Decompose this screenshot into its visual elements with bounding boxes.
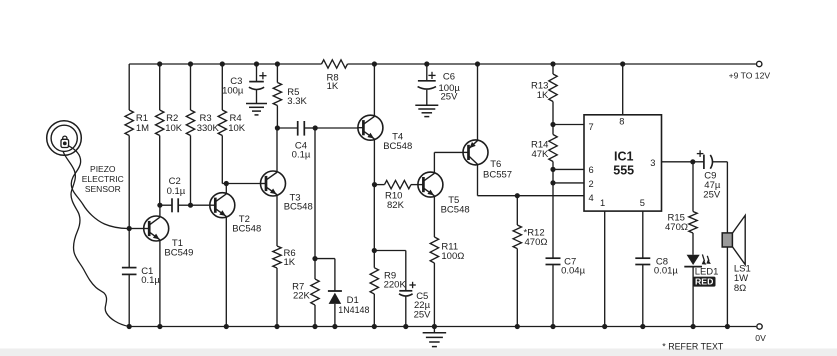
resistor R9 (370, 251, 406, 327)
svg-text:25V: 25V (441, 92, 459, 103)
node R3 on +V rail (188, 61, 193, 66)
wire pin 2 (553, 182, 584, 184)
svg-text:100Ω: 100Ω (441, 251, 464, 262)
wire T3 emitter (276, 195, 278, 246)
wire T5 collector to T6 base (434, 152, 463, 172)
node piezo/C1 on 0V rail (127, 324, 132, 329)
node R12 on reset line (515, 193, 520, 198)
piezo electric sensor disc (47, 121, 82, 156)
wire T2 base (191, 204, 210, 206)
svg-text:3: 3 (650, 158, 655, 168)
svg-text:BC548: BC548 (284, 202, 313, 213)
wire R7 node to D1 (315, 258, 335, 260)
svg-text:82K: 82K (387, 200, 405, 211)
svg-text:25V: 25V (414, 309, 432, 320)
node C6 on +V rail (424, 61, 429, 66)
wire T1 emitter (159, 240, 161, 326)
wire T4 base (315, 127, 358, 129)
svg-text:1N4148: 1N4148 (338, 305, 369, 315)
svg-text:RED: RED (695, 277, 713, 287)
node R12 on 0V rail (515, 324, 520, 329)
capacitor C6 (418, 64, 461, 105)
node T4 emitter / R10 / R9 (372, 182, 377, 187)
svg-text:BC549: BC549 (164, 248, 193, 259)
LED LED1 (684, 254, 718, 326)
transistor T2 (210, 193, 261, 235)
capacitor C2 (160, 176, 191, 212)
node R5 / T3 collector / C4 (275, 125, 280, 130)
svg-text:0.1µ: 0.1µ (167, 186, 186, 197)
svg-text:* REFER TEXT: * REFER TEXT (662, 342, 724, 352)
resistor R8 (322, 60, 348, 92)
node R6 on 0V rail (274, 324, 279, 329)
resistor R6 (273, 246, 296, 327)
node pin 8 on +V rail (620, 61, 625, 66)
node R13 on +V rail (550, 61, 555, 66)
svg-text:1M: 1M (136, 123, 149, 134)
label PIEZO ELECTRIC SENSOR (82, 164, 124, 194)
svg-text:6: 6 (589, 165, 594, 175)
resistor R1 (125, 64, 149, 229)
svg-text:PIEZO: PIEZO (90, 164, 116, 174)
svg-text:10K: 10K (165, 123, 183, 134)
node T6 emitter on +V rail (475, 61, 480, 66)
node C8 on 0V rail (640, 324, 645, 329)
svg-text:10K: 10K (228, 123, 246, 134)
svg-text:100µ: 100µ (222, 85, 244, 96)
svg-text:BC548: BC548 (441, 205, 470, 216)
svg-text:5: 5 (640, 198, 645, 208)
node T1 base / R1 / C1 (127, 226, 132, 231)
wire piezo lead to 0V rail (63, 151, 129, 326)
node C5 on 0V rail (403, 324, 408, 329)
node pin 6 junction (550, 167, 555, 172)
svg-text:8Ω: 8Ω (734, 283, 746, 294)
node R7 / D1 (312, 256, 317, 261)
node T1 emitter on 0V rail (157, 324, 162, 329)
capacitor C3 (222, 64, 266, 104)
wire T2 collector (225, 184, 227, 194)
capacitor C9 (693, 150, 728, 200)
label REFER TEXT footnote (662, 342, 724, 352)
resistor R14 (531, 125, 557, 170)
svg-text:22K: 22K (293, 290, 311, 301)
transistor T4 (358, 115, 412, 152)
svg-text:0.01µ: 0.01µ (654, 266, 678, 277)
svg-text:0.1µ: 0.1µ (292, 150, 311, 161)
wire pin 6 (553, 168, 584, 170)
node R2 / T1 collector / C2 (157, 203, 162, 208)
capacitor C5 (374, 251, 431, 327)
node D1 on 0V rail (332, 324, 337, 329)
svg-text:0V: 0V (755, 333, 766, 343)
wire 0V bottom rail (129, 326, 756, 328)
transistor T5 (418, 172, 470, 215)
wire pin 3 output (662, 161, 693, 163)
svg-text:470Ω: 470Ω (525, 237, 548, 248)
resistor R3 (186, 64, 219, 205)
node R7 on 0V rail (312, 324, 317, 329)
svg-text:470Ω: 470Ω (665, 222, 688, 233)
svg-text:SENSOR: SENSOR (85, 184, 121, 194)
node speaker on 0V rail (725, 324, 730, 329)
wire pin 2-6 node down to C7 (552, 169, 554, 258)
svg-text:8: 8 (619, 117, 624, 127)
wire T2 emitter (225, 217, 227, 327)
svg-text:330K: 330K (197, 123, 220, 134)
node T2 emitter on 0V rail (224, 324, 229, 329)
svg-text:555: 555 (613, 164, 634, 178)
svg-text:+9 TO 12V: +9 TO 12V (729, 70, 771, 80)
resistor R15 (665, 162, 697, 255)
resistor R11 (430, 237, 464, 327)
svg-text:47K: 47K (531, 149, 549, 160)
terminal +9 TO 12V (729, 61, 771, 80)
svg-text:7: 7 (589, 122, 594, 132)
wire C4 node down to R7-D1 node (314, 128, 316, 259)
wire pin 5 to C8 (642, 211, 644, 258)
svg-text:1: 1 (600, 198, 605, 208)
resistor R12 (513, 196, 547, 327)
speaker LS1 (722, 215, 751, 293)
capacitor C7 (546, 256, 586, 326)
resistor R5 (273, 64, 307, 128)
wire T5 emitter (433, 196, 435, 237)
node pin 3 / C9 / R15 (690, 159, 695, 164)
svg-text:4: 4 (589, 193, 594, 203)
svg-text:BC548: BC548 (383, 141, 412, 152)
node R9 / C5 (372, 248, 377, 253)
resistor R10 (375, 180, 418, 211)
wire C9 to speaker (726, 162, 728, 233)
node R5 on +V rail (275, 61, 280, 66)
wire speaker to 0V (726, 247, 728, 327)
svg-text:ELECTRIC: ELECTRIC (82, 174, 124, 184)
resistor R7 (292, 259, 319, 327)
node pin 1 on 0V rail (602, 324, 607, 329)
node R3 / C2 / T2 base (188, 203, 193, 208)
piezo sensor crystal icon (61, 136, 69, 147)
wire T4 collector (373, 64, 375, 116)
resistor R13 (531, 64, 557, 125)
wire R4 to T3 base (222, 183, 260, 185)
wire piezo lead to T1 base node (68, 145, 129, 228)
svg-text:T6: T6 (490, 159, 501, 170)
svg-text:C6: C6 (443, 72, 455, 83)
wire pin 8 to +V (622, 64, 624, 115)
wire pin 1 to 0V (604, 211, 606, 326)
node R13 / R14 / pin 7 (550, 122, 555, 127)
ground (C6) (415, 105, 438, 116)
wire T1 base (129, 228, 144, 230)
svg-text:220K: 220K (384, 280, 407, 291)
svg-text:1K: 1K (284, 257, 296, 268)
node C7 on 0V rail (550, 324, 555, 329)
svg-text:BC557: BC557 (483, 169, 512, 180)
svg-text:25V: 25V (703, 189, 721, 200)
svg-text:IC1: IC1 (614, 150, 634, 164)
node T2 collector / R4 / T3 base (224, 181, 229, 186)
node R2 on +V rail (157, 61, 162, 66)
node R4 on +V rail (220, 61, 225, 66)
svg-text:2: 2 (589, 179, 594, 189)
ground (bottom rail) (423, 327, 447, 347)
wire pin 7 (553, 124, 584, 126)
transistor T3 (261, 171, 313, 213)
bottom scan band (0, 349, 837, 356)
node C4 / T4 base / R7 branch (313, 125, 318, 130)
ground (C3) (246, 104, 267, 115)
resistor R4 (218, 64, 246, 184)
label RED (693, 277, 716, 287)
capacitor C1 (122, 229, 161, 327)
transistor T1 (144, 216, 194, 259)
wire T1 collector (159, 205, 161, 217)
capacitor C8 (635, 256, 678, 326)
wire T6 collector to reset line (478, 165, 585, 196)
svg-text:BC548: BC548 (232, 224, 261, 235)
svg-text:0.04µ: 0.04µ (561, 266, 585, 277)
node T4 collector on +V rail (372, 61, 377, 66)
node R11/ground on 0V rail (432, 324, 437, 329)
wire T4 emitter (373, 140, 375, 185)
resistor R2 (156, 64, 183, 205)
capacitor C4 (277, 121, 315, 161)
wire T6 emitter to +V (477, 64, 479, 140)
wire T3 collector (276, 128, 278, 172)
svg-text:1K: 1K (537, 90, 549, 101)
transistor T6 (463, 140, 512, 181)
svg-text:0.1µ: 0.1µ (141, 275, 160, 286)
svg-text:1K: 1K (327, 81, 339, 92)
svg-text:3.3K: 3.3K (287, 96, 307, 107)
op-amp-style IC U1 (IC1 555 timer) (584, 115, 662, 211)
wire T4 emitter down to R9-C5 node (373, 185, 375, 251)
diode D1 (328, 259, 370, 327)
wire +V top supply rail (129, 63, 756, 65)
node LED1 on 0V rail (691, 324, 696, 329)
terminal 0V (755, 324, 766, 343)
node C3 on +V rail (254, 61, 259, 66)
node R9 on 0V rail (372, 324, 377, 329)
node pin 2 junction (550, 180, 555, 185)
